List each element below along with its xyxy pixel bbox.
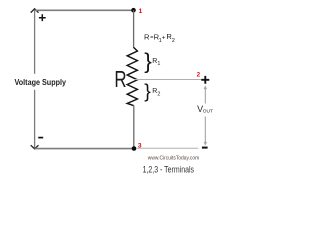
svg-text:+: + <box>162 34 166 41</box>
wire resistor bottom to node 3 <box>133 105 135 147</box>
wire tap from resistor midpoint to terminal 2 <box>135 79 202 81</box>
minus sign Vout <box>202 147 208 149</box>
svg-text:}: } <box>144 81 151 103</box>
plus sign terminal 2 <box>201 76 209 84</box>
node 3 junction dot <box>132 146 137 151</box>
svg-text:1: 1 <box>157 61 160 67</box>
node 1 junction dot <box>131 8 136 13</box>
minus sign at supply bottom <box>38 137 43 139</box>
plus sign at supply top <box>39 14 46 21</box>
Vout dimension line upper segment <box>204 88 206 104</box>
label R (total resistance, large) <box>114 66 126 92</box>
Vout dimension line down arrowhead <box>204 142 207 146</box>
svg-text:2: 2 <box>157 91 160 97</box>
svg-text:1: 1 <box>139 8 143 15</box>
wire bottom right (node 3 to Vout minus) <box>136 147 198 149</box>
svg-text:OUT: OUT <box>203 109 213 115</box>
voltage source V1 top arrowhead <box>31 9 39 13</box>
svg-text:R: R <box>114 66 126 92</box>
voltage source V1 vertical line upper segment <box>34 10 36 74</box>
svg-text:1,2,3 - Terminals: 1,2,3 - Terminals <box>143 165 195 175</box>
svg-text:R: R <box>144 33 150 42</box>
voltage source V1 bottom arrowhead <box>31 145 39 149</box>
wire bottom (supply - to node 3) <box>35 148 134 150</box>
wire top (supply + to node 1) <box>35 9 134 11</box>
svg-text:2: 2 <box>172 38 175 44</box>
svg-text:www.CircuitsToday.com: www.CircuitsToday.com <box>147 156 200 162</box>
wire node 1 to resistor top <box>133 10 135 48</box>
svg-text:Voltage Supply: Voltage Supply <box>15 77 67 87</box>
Vout dimension line lower segment <box>204 117 206 144</box>
svg-text:}: } <box>144 49 152 74</box>
resistor R zigzag body <box>127 47 137 105</box>
svg-text:2: 2 <box>197 72 201 78</box>
Vout dimension line up arrowhead <box>204 85 207 89</box>
voltage source V1 vertical line lower segment <box>34 90 36 148</box>
